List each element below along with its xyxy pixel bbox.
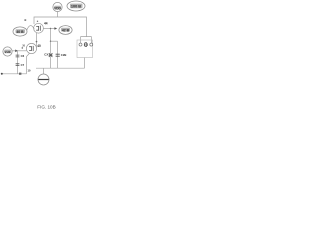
svg-text:CX: CX [44,53,48,57]
svg-text:42 B: 42 B [62,28,70,32]
svg-text:VDD: VDD [54,6,61,10]
svg-text:C7: C7 [21,63,25,67]
svg-text:C6: C6 [21,54,25,58]
svg-text:C2B: C2B [61,53,67,57]
svg-text:44: 44 [44,21,48,25]
svg-text:40: 40 [37,44,41,48]
svg-text:FIG. 10B: FIG. 10B [37,105,55,110]
svg-text:Vslb: Vslb [5,50,11,54]
svg-text:100 B: 100 B [71,5,81,9]
svg-text:40 B: 40 B [16,30,24,34]
